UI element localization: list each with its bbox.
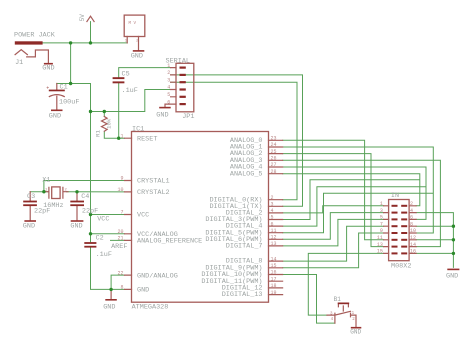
- svg-text:25: 25: [271, 149, 277, 155]
- svg-text:100uF: 100uF: [59, 98, 79, 106]
- svg-text:DIGITAL_7: DIGITAL_7: [226, 243, 263, 251]
- svg-text:M08X2: M08X2: [391, 262, 411, 270]
- svg-text:1: 1: [167, 63, 170, 69]
- svg-text:4: 4: [410, 208, 413, 214]
- svg-text:GND: GND: [49, 112, 61, 120]
- svg-text:3: 3: [271, 202, 274, 208]
- svg-text:3: 3: [167, 77, 170, 83]
- svg-text:5: 5: [167, 92, 170, 98]
- svg-text:GND/ANALOG: GND/ANALOG: [137, 272, 178, 280]
- svg-text:12: 12: [271, 235, 277, 241]
- svg-text:14: 14: [410, 242, 416, 248]
- svg-text:C1: C1: [60, 84, 68, 92]
- svg-text:22pF: 22pF: [34, 207, 50, 215]
- svg-text:R1: R1: [95, 130, 102, 137]
- svg-text:C5: C5: [122, 70, 130, 78]
- svg-text:B1: B1: [334, 296, 342, 303]
- svg-text:10k: 10k: [106, 118, 113, 129]
- svg-text:27: 27: [271, 162, 277, 168]
- svg-text:10: 10: [117, 187, 123, 193]
- svg-text:CRYSTAL2: CRYSTAL2: [137, 189, 170, 197]
- svg-text:4: 4: [271, 208, 274, 214]
- svg-text:IN: IN: [391, 192, 399, 200]
- svg-text:26: 26: [271, 156, 277, 162]
- svg-text:GND: GND: [446, 273, 458, 281]
- svg-text:5V: 5V: [79, 14, 86, 22]
- svg-text:1: 1: [380, 201, 383, 207]
- svg-text:8: 8: [120, 285, 123, 291]
- svg-text:22pF: 22pF: [82, 207, 98, 215]
- svg-text:GND: GND: [42, 65, 54, 73]
- svg-text:ANALOG_5: ANALOG_5: [230, 170, 263, 178]
- svg-text:10: 10: [410, 228, 416, 234]
- svg-text:18: 18: [271, 283, 277, 289]
- svg-text:ANALOG_REFERENCE: ANALOG_REFERENCE: [137, 238, 202, 246]
- svg-text:5: 5: [271, 215, 274, 221]
- svg-text:.1uF: .1uF: [122, 87, 138, 95]
- svg-text:7: 7: [120, 210, 123, 216]
- svg-text:ATMEGA328: ATMEGA328: [132, 304, 169, 312]
- svg-text:23: 23: [271, 136, 277, 142]
- svg-text:20: 20: [117, 229, 123, 235]
- svg-text:AREF: AREF: [111, 243, 127, 251]
- svg-text:11: 11: [377, 235, 383, 241]
- svg-text:6: 6: [271, 221, 274, 227]
- svg-text:VCC: VCC: [97, 215, 109, 223]
- svg-text:GND: GND: [156, 112, 168, 120]
- svg-text:16: 16: [410, 249, 416, 255]
- svg-text:VCC: VCC: [137, 212, 149, 220]
- svg-text:4: 4: [167, 85, 170, 91]
- svg-text:12: 12: [410, 235, 416, 241]
- svg-text:DIGITAL_13: DIGITAL_13: [222, 291, 263, 299]
- svg-text:IC1: IC1: [132, 126, 144, 134]
- svg-text:8: 8: [410, 221, 413, 227]
- svg-text:16: 16: [271, 270, 277, 276]
- svg-text:15: 15: [271, 263, 277, 269]
- svg-text:GND: GND: [103, 304, 115, 312]
- svg-text:13: 13: [271, 241, 277, 247]
- svg-text:GND: GND: [131, 53, 143, 61]
- svg-text:9: 9: [380, 228, 383, 234]
- svg-text:3: 3: [380, 208, 383, 214]
- svg-text:15: 15: [377, 249, 383, 255]
- svg-text:13: 13: [377, 242, 383, 248]
- svg-text:GND: GND: [70, 222, 82, 230]
- svg-text:+: +: [46, 85, 49, 91]
- svg-text:C3: C3: [27, 193, 35, 201]
- svg-text:M V: M V: [129, 22, 137, 26]
- svg-text:CRYSTAL1: CRYSTAL1: [137, 178, 170, 186]
- svg-text:7: 7: [380, 221, 383, 227]
- svg-text:28: 28: [271, 169, 277, 175]
- svg-text:1: 1: [120, 133, 123, 139]
- svg-text:6: 6: [167, 99, 170, 105]
- svg-text:17: 17: [271, 276, 277, 282]
- svg-text:POWER JACK: POWER JACK: [14, 31, 56, 39]
- svg-text:9: 9: [120, 176, 123, 182]
- svg-text:2: 2: [410, 201, 413, 207]
- svg-text:2: 2: [167, 70, 170, 76]
- svg-text:19: 19: [271, 290, 277, 296]
- svg-text:6: 6: [410, 215, 413, 221]
- svg-text:14: 14: [271, 256, 277, 262]
- svg-text:JP1: JP1: [182, 113, 194, 121]
- svg-text:GND: GND: [23, 222, 35, 230]
- svg-text:22: 22: [117, 270, 123, 276]
- svg-text:RESET: RESET: [137, 135, 157, 143]
- svg-text:C2: C2: [96, 234, 104, 242]
- svg-text:24: 24: [271, 142, 277, 148]
- svg-text:21: 21: [117, 236, 123, 242]
- svg-text:5: 5: [380, 215, 383, 221]
- svg-text:2: 2: [271, 195, 274, 201]
- svg-text:X1: X1: [42, 177, 50, 185]
- svg-text:GND: GND: [350, 329, 361, 336]
- svg-text:J1: J1: [15, 59, 23, 67]
- svg-text:GND: GND: [137, 287, 149, 295]
- svg-text:.1uF: .1uF: [96, 251, 112, 259]
- svg-text:11: 11: [271, 228, 277, 234]
- svg-text:C4: C4: [81, 193, 89, 201]
